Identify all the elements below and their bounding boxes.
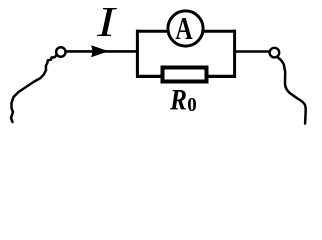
- right terminal circle: [270, 48, 280, 58]
- top branch wire: [136, 30, 236, 33]
- left flexible lead wire: [11, 55, 58, 122]
- ammeter letter A: [176, 18, 193, 39]
- bottom branch wire: [136, 75, 236, 78]
- wire: left terminal to parallel block: [66, 50, 137, 53]
- right flexible lead wire: [277, 57, 306, 124]
- wire: parallel block to right terminal: [236, 50, 270, 53]
- left terminal circle: [56, 47, 65, 56]
- right vertical bar of parallel block: [233, 30, 236, 78]
- label R0: [170, 90, 186, 109]
- current arrow: [91, 45, 109, 57]
- left vertical bar of parallel block: [136, 30, 139, 78]
- ammeter U1 circle: [168, 11, 203, 46]
- resistor R0 body: [163, 68, 207, 82]
- label I: [97, 8, 117, 36]
